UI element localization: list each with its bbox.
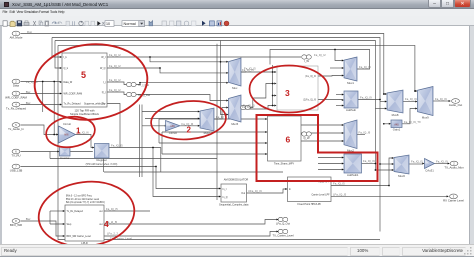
svg-text:CAu31: CAu31 [425, 168, 434, 172]
svg-text:(Fa_IQ_I0: (Fa_IQ_I0 [305, 75, 316, 78]
svg-text:AK6: AK6 [170, 125, 175, 128]
svg-text:TX_Audio_Mon: TX_Audio_Mon [444, 166, 464, 170]
svg-text:Fa_IQ_I9: Fa_IQ_I9 [405, 97, 417, 101]
svg-text:In_I: In_I [223, 189, 227, 191]
svg-text:Circuit: Circuit [63, 122, 71, 126]
svg-text:Fa_IQ_I5: Fa_IQ_I5 [333, 182, 345, 186]
svg-text:AK6: AK6 [64, 134, 69, 137]
svg-text:3: 3 [285, 88, 290, 98]
svg-text:Fa_IQ_I5: Fa_IQ_I5 [111, 144, 123, 148]
svg-text:Audio_Out: Audio_Out [449, 103, 462, 107]
svg-text:RX Carrier Level: RX Carrier Level [443, 198, 464, 202]
svg-text:W_Q: W_Q [100, 67, 106, 70]
svg-text:Tx_Audio_In: Tx_Audio_In [8, 127, 24, 131]
svg-text:out: out [99, 210, 103, 213]
svg-text:Q_j: Q_j [102, 91, 106, 94]
svg-text:UFa_IQ_I9: UFa_IQ_I9 [248, 189, 262, 193]
svg-text:Tx_Rx_Delayed: Tx_Rx_Delayed [67, 211, 84, 213]
svg-text:Fa_IQ_I5: Fa_IQ_I5 [244, 66, 256, 70]
svg-text:Gain1: Gain1 [393, 128, 401, 132]
svg-text:Mux: Mux [232, 86, 238, 90]
svg-text:Fa_IQ_I2: Fa_IQ_I2 [109, 78, 121, 82]
svg-text:AddSub1: AddSub1 [347, 173, 359, 177]
svg-text:Data_W: Data_W [64, 81, 73, 84]
svg-text:Run: Run [27, 30, 33, 34]
svg-text:Fa_IQ_I5: Fa_IQ_I5 [106, 207, 118, 211]
svg-text:out: out [99, 223, 103, 226]
svg-text:Mux6: Mux6 [398, 174, 405, 178]
svg-text:(2)Fa_IQ_I9: (2)Fa_IQ_I9 [303, 99, 317, 102]
svg-text:AM_Mode: AM_Mode [10, 36, 23, 40]
svg-text:I_W: I_W [304, 59, 309, 63]
svg-text:Tx_Rx_Delayed: Tx_Rx_Delayed [64, 103, 82, 106]
svg-text:AK6: AK6 [394, 124, 399, 127]
svg-text:Time_Share_MPY: Time_Share_MPY [274, 162, 295, 165]
svg-text:LFa_Q_Out: LFa_Q_Out [276, 222, 290, 226]
svg-text:Fa_IQ_I2: Fa_IQ_I2 [109, 53, 121, 57]
svg-text:Fa_IQ_I2: Fa_IQ_I2 [109, 64, 121, 68]
svg-text:Fa_IQ_I9_TX: Fa_IQ_I9_TX [404, 120, 421, 124]
svg-text:LFa_IQ_I5: LFa_IQ_I5 [333, 192, 347, 196]
svg-text:In_Q: In_Q [223, 197, 228, 199]
svg-text:BA (21 upmode TY(-Y) or RV 32-: BA (21 upmode TY(-Y) or RV 32-BFC) [66, 201, 105, 204]
svg-text:Fa_IQ_I9: Fa_IQ_I9 [359, 131, 371, 135]
svg-text:Fa_IQ_I5: Fa_IQ_I5 [411, 160, 423, 164]
svg-text:Carrier Level LPF: Carrier Level LPF [312, 193, 331, 196]
svg-text:Out: Out [241, 192, 245, 195]
svg-text:Fa_IQ_I9: Fa_IQ_I9 [435, 97, 447, 101]
svg-text:Fa_IQ_I9: Fa_IQ_I9 [363, 159, 375, 163]
svg-text:Mux1: Mux1 [347, 81, 354, 85]
svg-text:5: 5 [81, 70, 86, 80]
svg-text:BVk:13 -20 xxx AM Carrier Leve: BVk:13 -20 xxx AM Carrier Level [66, 198, 100, 201]
svg-text:Simple Coefficient Block: Simple Coefficient Block [70, 112, 100, 116]
svg-text:Register: Register [97, 158, 107, 162]
svg-text:Fa_IQ_I9: Fa_IQ_I9 [436, 159, 448, 163]
svg-text:USB_LSB: USB_LSB [10, 169, 23, 173]
svg-text:Bwr: Bwr [26, 101, 31, 105]
svg-text:Fa_IQ_I9: Fa_IQ_I9 [359, 65, 371, 69]
svg-text:WR_COEF_RAM: WR_COEF_RAM [64, 93, 83, 96]
svg-text:Fa_IQ_I2: Fa_IQ_I2 [109, 88, 121, 92]
svg-text:BVk:0 - 12 xxx BFO Freq: BVk:0 - 12 xxx BFO Freq [66, 195, 92, 198]
svg-text:Bwr: Bwr [26, 90, 31, 94]
svg-text:AddSub: AddSub [346, 108, 356, 112]
svg-text:1: 1 [76, 127, 81, 136]
svg-text:Mux9: Mux9 [422, 116, 429, 120]
svg-text:I_j: I_j [103, 81, 106, 84]
svg-text:Fa_IQ_I2: Fa_IQ_I2 [26, 80, 38, 84]
svg-text:4: 4 [104, 219, 109, 229]
svg-text:Mux5: Mux5 [231, 122, 238, 126]
svg-text:Normal: Normal [124, 22, 136, 26]
svg-text:6: 6 [286, 135, 291, 145]
svg-text:Invertor: Invertor [60, 156, 70, 160]
svg-text:BFO_WR Carrier_Level: BFO_WR Carrier_Level [67, 235, 92, 238]
svg-text:TX_RU: TX_RU [11, 154, 20, 158]
svg-text:WR_COEF_RAM: WR_COEF_RAM [5, 96, 27, 100]
svg-text:Q_W: Q_W [303, 136, 310, 140]
svg-text:Circuit: Circuit [169, 131, 177, 135]
svg-text:Step: Step [67, 223, 72, 226]
svg-text:AM DEMODULATOR: AM DEMODULATOR [224, 177, 249, 181]
svg-text:Tx_Rx_Delayed: Tx_Rx_Delayed [6, 107, 26, 111]
svg-text:10: 10 [106, 22, 110, 26]
svg-text:Data: Data [13, 84, 19, 88]
svg-text:TX_Carrier_Level: TX_Carrier_Level [272, 234, 293, 238]
svg-text:Bwr: Bwr [26, 217, 31, 221]
svg-text:W_I: W_I [101, 56, 106, 59]
svg-text:Fixed Point HPF/LPF: Fixed Point HPF/LPF [298, 203, 322, 206]
svg-text:Fa_IQ_I5: Fa_IQ_I5 [243, 103, 255, 107]
svg-text:LFa_2_2: LFa_2_2 [107, 232, 118, 236]
svg-text:Sequential_Complex_data: Sequential_Complex_data [219, 204, 249, 207]
svg-text:120 Tap FIR with: 120 Tap FIR with [74, 108, 95, 112]
svg-text:Fa_IQ_I9: Fa_IQ_I9 [360, 95, 372, 99]
svg-text:2: 2 [187, 126, 192, 135]
svg-text:(5Hz AM Carrier when <h RX): (5Hz AM Carrier when <h RX) [86, 163, 118, 166]
svg-text:Mux8: Mux8 [392, 113, 399, 117]
svg-text:Fa_IQ_I2: Fa_IQ_I2 [314, 53, 326, 57]
svg-text:BFO_WR: BFO_WR [10, 223, 22, 227]
svg-text:Fa_IQ: Fa_IQ [216, 115, 225, 119]
